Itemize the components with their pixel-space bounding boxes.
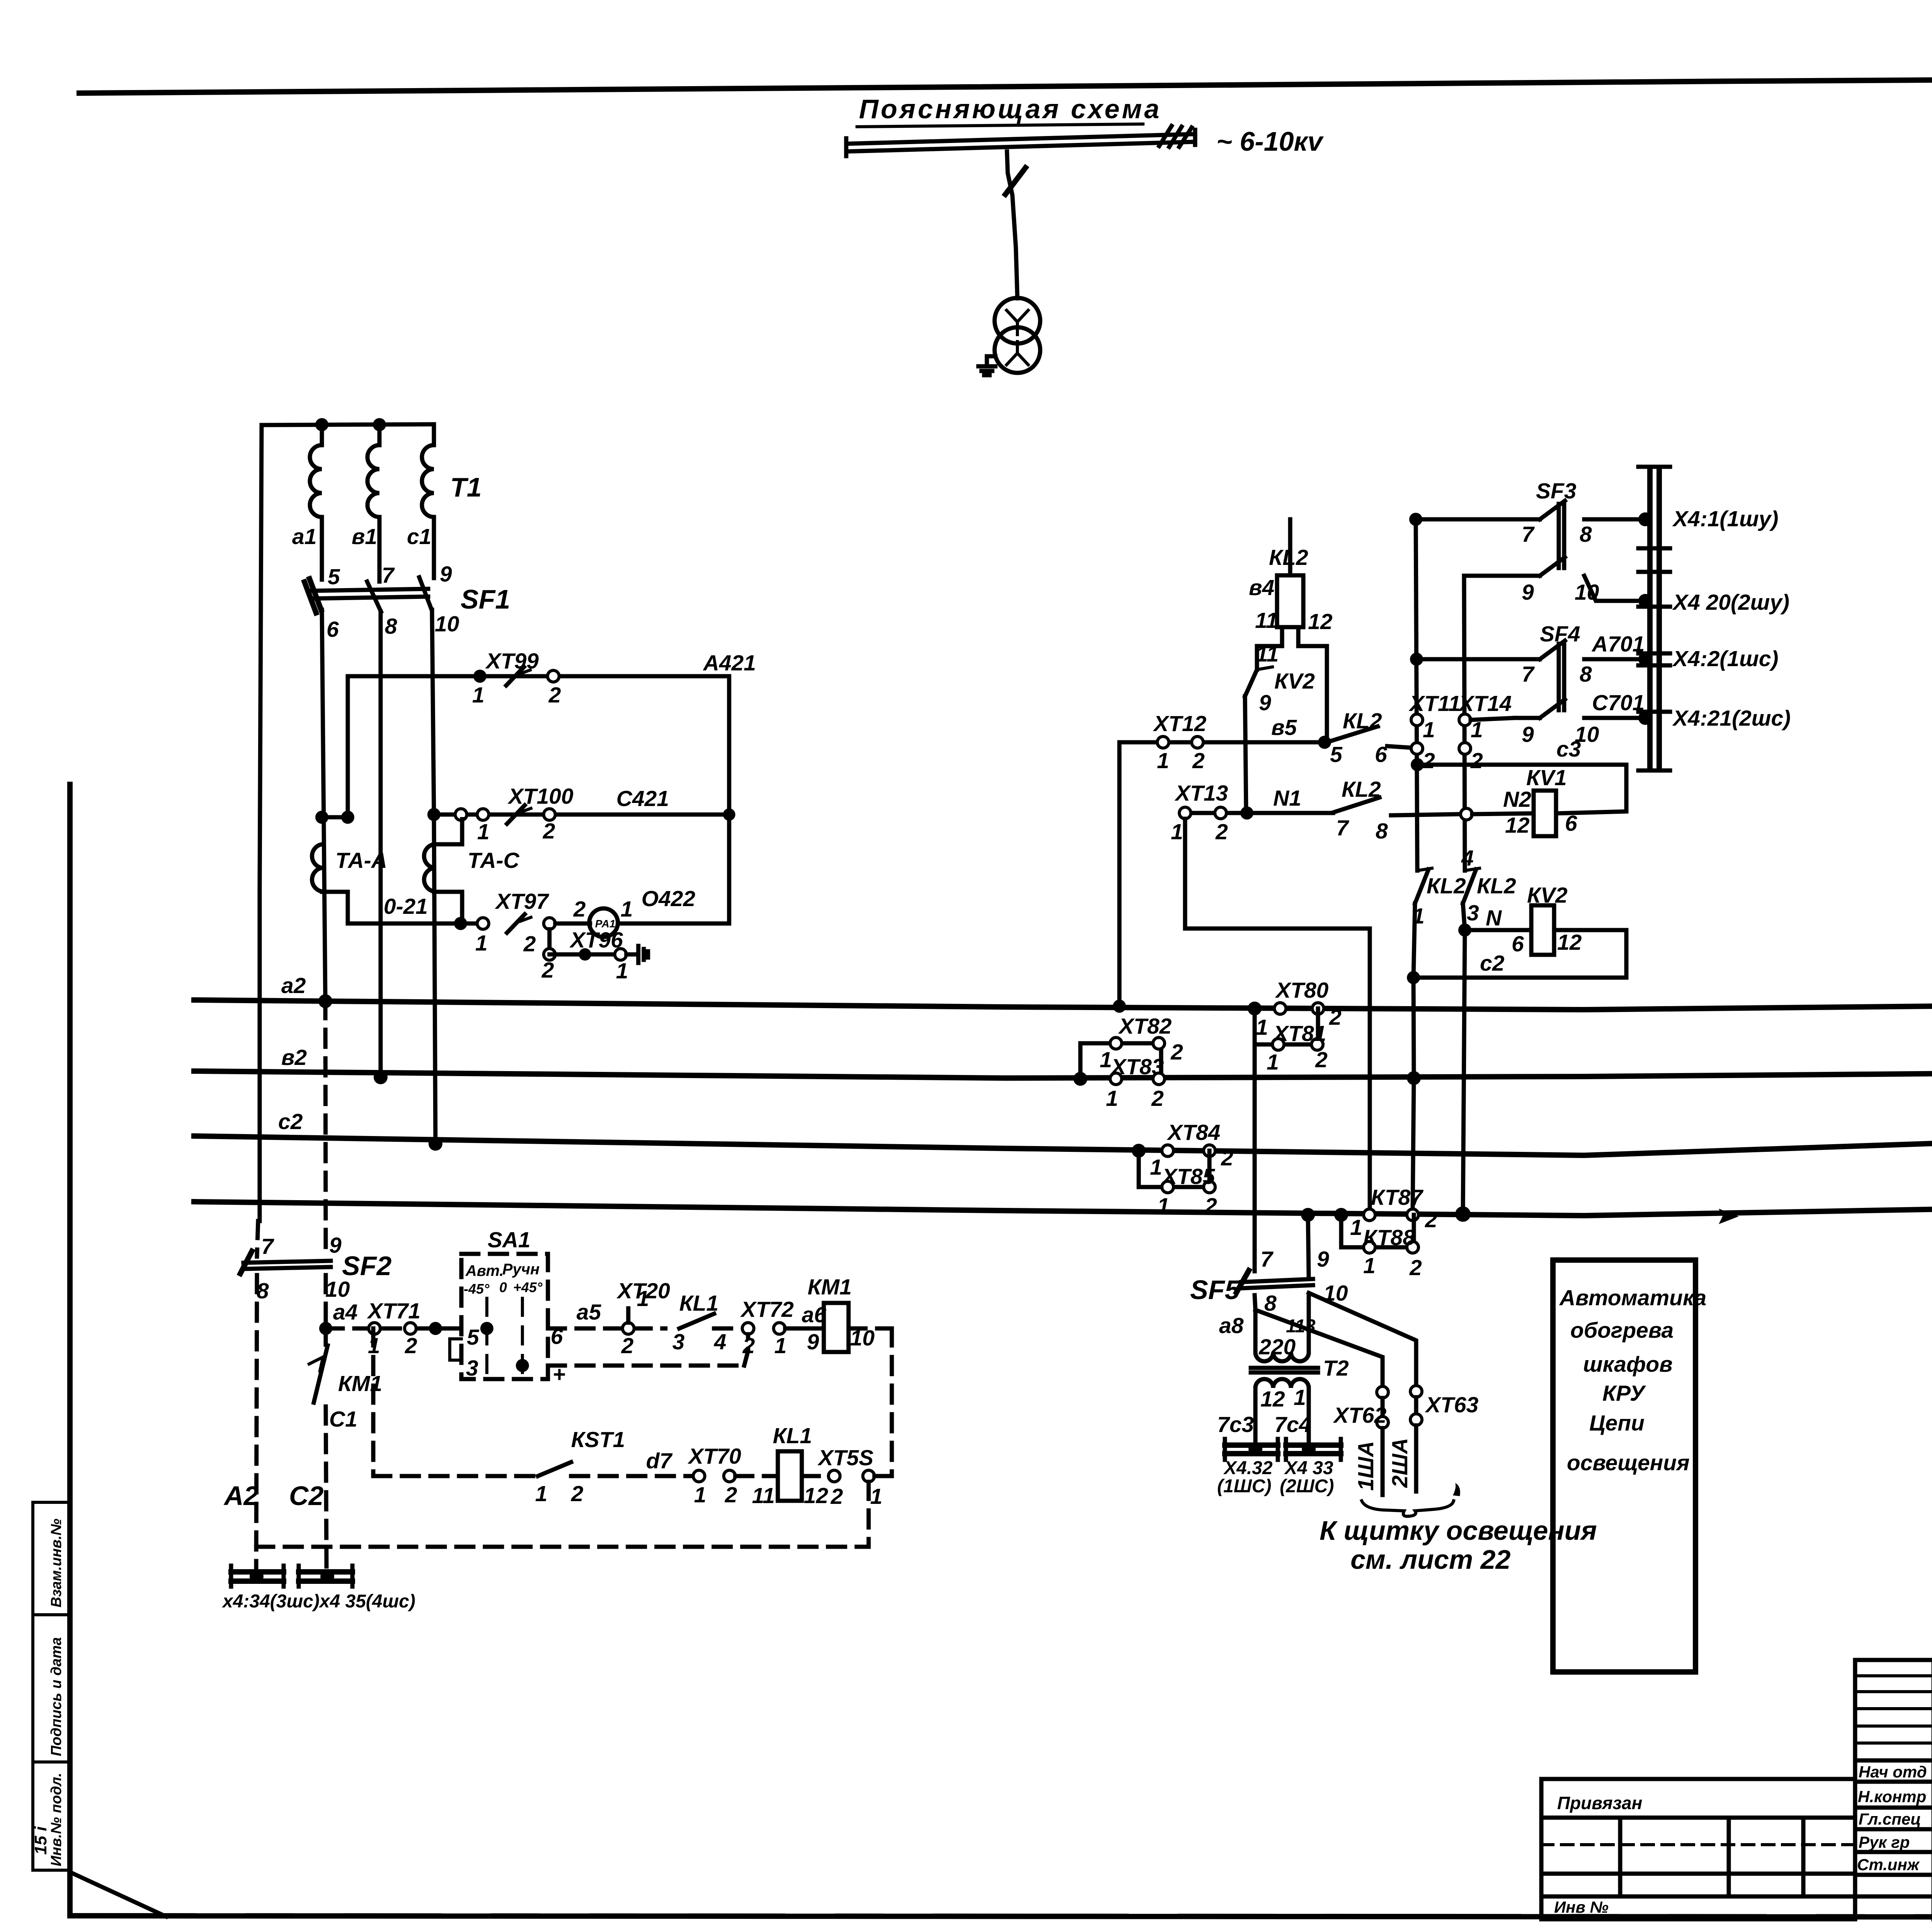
terminal XT71 <box>326 1299 435 1358</box>
bus b2 <box>194 1045 1932 1078</box>
svg-text:0-21: 0-21 <box>384 894 428 919</box>
svg-text:ХТ12: ХТ12 <box>1153 711 1207 736</box>
wire A421 with terminal XT99 <box>349 649 756 707</box>
svg-text:1: 1 <box>870 1484 883 1509</box>
transformer T (2 circles) <box>995 298 1040 373</box>
svg-text:10: 10 <box>435 612 459 636</box>
svg-text:ХТ70: ХТ70 <box>687 1444 742 1469</box>
connector x4:34 <box>231 1566 284 1587</box>
svg-text:7: 7 <box>1522 662 1535 687</box>
svg-text:Х4:21(2шс): Х4:21(2шс) <box>1672 706 1791 731</box>
vertical link from XT99 line down to TA-A <box>346 676 350 817</box>
svg-text:2: 2 <box>830 1484 843 1509</box>
bus n (4th) <box>194 1200 1932 1216</box>
svg-text:Автоматика: Автоматика <box>1559 1286 1706 1310</box>
breaker SF2 <box>240 1233 391 1303</box>
wire 1ShA to lighting panel <box>1255 1310 1388 1495</box>
svg-text:SA1: SA1 <box>488 1228 531 1252</box>
terminal XT20 <box>616 1279 670 1358</box>
svg-text:2: 2 <box>571 1481 583 1506</box>
transformer T1 top bus <box>262 424 434 425</box>
svg-text:Рук гр: Рук гр <box>1859 1833 1910 1851</box>
svg-text:7: 7 <box>382 563 395 588</box>
terminal XT58 <box>817 1446 892 1509</box>
column XT11 <box>1408 513 1461 871</box>
svg-text:ХТ71: ХТ71 <box>367 1299 420 1323</box>
terminals XT82 / XT83 <box>1073 1014 1183 1111</box>
svg-text:2: 2 <box>1422 748 1435 773</box>
ground of transformer <box>978 356 995 375</box>
svg-text:2: 2 <box>1315 1048 1328 1072</box>
junction a2/TA-A column <box>318 994 332 1008</box>
svg-text:Подпись и дата: Подпись и дата <box>48 1637 65 1756</box>
svg-text:с1: с1 <box>407 524 431 549</box>
node b1 top junction <box>373 418 386 431</box>
svg-text:1: 1 <box>1150 1155 1162 1180</box>
T2 core <box>1251 1356 1349 1381</box>
sheet top border <box>79 75 1932 93</box>
bus a2 <box>194 973 1932 1010</box>
SF1 pole 6 wire down through TA-A to bus a2 <box>322 610 325 1001</box>
contact KL2 1 <box>1412 868 1466 978</box>
svg-text:Х4:1(1шу): Х4:1(1шу) <box>1672 507 1778 531</box>
svg-text:ХТ84: ХТ84 <box>1167 1120 1220 1145</box>
svg-text:15 i: 15 i <box>31 1826 50 1855</box>
junction b2/SF1 pole8 <box>374 1070 388 1084</box>
svg-text:ХТ62: ХТ62 <box>1333 1403 1387 1428</box>
svg-text:КРУ: КРУ <box>1602 1381 1646 1406</box>
svg-text:ХТ85: ХТ85 <box>1161 1164 1216 1189</box>
connector X4:33 <box>1280 1439 1341 1497</box>
svg-text:см. лист 22: см. лист 22 <box>1350 1544 1510 1575</box>
transformer T2 primary winding a8 <box>1219 1310 1316 1361</box>
box Avtomatika obogreva <box>1553 1260 1706 1672</box>
svg-text:2: 2 <box>1409 1255 1422 1280</box>
svg-text:8: 8 <box>1376 819 1388 844</box>
arrow on 4th bus <box>1719 1209 1739 1224</box>
svg-text:N1: N1 <box>1273 786 1301 811</box>
svg-text:А421: А421 <box>702 651 756 675</box>
svg-text:12: 12 <box>804 1483 828 1508</box>
svg-text:5: 5 <box>467 1325 480 1350</box>
svg-text:а4: а4 <box>333 1300 357 1325</box>
svg-text:1: 1 <box>621 897 633 922</box>
svg-text:КМ1: КМ1 <box>808 1275 852 1299</box>
wire from XT13 pin1 loop down to XT87 <box>1185 819 1370 1209</box>
terminal XT13 and wire N1 <box>1171 781 1333 844</box>
bottom return dashed wire <box>256 1482 869 1547</box>
svg-text:+45°: +45° <box>513 1279 543 1295</box>
svg-text:1: 1 <box>1171 820 1183 844</box>
svg-text:SF3: SF3 <box>1536 479 1577 503</box>
wire c2 (KV2 return) <box>1407 951 1626 1209</box>
svg-text:КL2: КL2 <box>1427 874 1466 898</box>
svg-text:ТА-С: ТА-С <box>468 848 520 873</box>
terminals XT87 / XT88 <box>1301 1185 1437 1280</box>
svg-text:6: 6 <box>327 617 339 642</box>
svg-text:2: 2 <box>1329 1005 1342 1030</box>
svg-text:а2: а2 <box>281 973 306 998</box>
bus c2 <box>194 1109 1932 1155</box>
svg-text:а5: а5 <box>577 1300 602 1325</box>
svg-text:А2: А2 <box>223 1481 259 1511</box>
holding circuit line KST1/d7 <box>373 1427 693 1506</box>
svg-text:1: 1 <box>637 1286 649 1311</box>
svg-text:С1: С1 <box>329 1407 357 1432</box>
svg-text:2: 2 <box>573 897 586 922</box>
svg-text:Т2: Т2 <box>1323 1356 1349 1381</box>
svg-text:1: 1 <box>694 1483 706 1507</box>
svg-text:7: 7 <box>1522 522 1535 547</box>
svg-text:О422: О422 <box>641 886 696 911</box>
svg-text:d7: d7 <box>646 1449 673 1473</box>
brace to lighting panel <box>1362 1483 1460 1516</box>
column from XT81 down to SF5 pole7 <box>1253 1044 1257 1271</box>
breaker SF1 <box>304 562 510 642</box>
coil KV1 <box>1472 765 1626 838</box>
svg-text:ХТ5S: ХТ5S <box>817 1446 874 1470</box>
second pole wire of SA1 <box>548 1334 748 1366</box>
svg-text:1: 1 <box>1267 1050 1279 1075</box>
svg-text:4: 4 <box>714 1330 726 1354</box>
breaker SF3 <box>1416 479 1640 605</box>
svg-text:Т1: Т1 <box>450 472 482 502</box>
current transformer TA-C <box>424 819 520 923</box>
svg-text:ХТ80: ХТ80 <box>1275 978 1329 1003</box>
svg-text:7: 7 <box>1260 1247 1274 1272</box>
svg-text:КSТ1: КSТ1 <box>571 1427 625 1452</box>
svg-text:5: 5 <box>328 565 340 589</box>
svg-text:SF1: SF1 <box>461 584 510 614</box>
title block signature table <box>1855 1660 1932 1919</box>
svg-text:ХТ82: ХТ82 <box>1118 1014 1172 1039</box>
contact KL2 5-6 <box>1329 709 1411 767</box>
svg-text:С2: С2 <box>289 1481 324 1511</box>
svg-text:2: 2 <box>621 1333 634 1358</box>
svg-text:6: 6 <box>1512 932 1524 956</box>
svg-text:КМ1: КМ1 <box>338 1371 382 1396</box>
sheet bottom border <box>70 1916 1932 1917</box>
column XT14 <box>1458 576 1512 871</box>
svg-text:220: 220 <box>1259 1335 1296 1359</box>
signature table texts <box>1857 1763 1932 1874</box>
node a4 on C2 wire <box>319 1322 332 1335</box>
svg-text:Инв.№ подл.: Инв.№ подл. <box>48 1773 65 1866</box>
node to SA1 <box>429 1322 442 1335</box>
svg-text:3: 3 <box>672 1330 685 1354</box>
T1 winding b1 <box>352 425 379 582</box>
svg-text:КL2: КL2 <box>1342 777 1381 802</box>
disconnector drop wire <box>1005 151 1026 298</box>
svg-text:8: 8 <box>385 614 397 639</box>
contact KL2 3 <box>1461 846 1516 930</box>
left long wire from T1 <box>260 425 262 1221</box>
svg-text:1: 1 <box>475 931 488 956</box>
svg-text:обогрева: обогрева <box>1570 1318 1673 1343</box>
svg-text:(1ШС): (1ШС) <box>1217 1476 1271 1497</box>
svg-text:2: 2 <box>523 932 536 956</box>
contact KL1 <box>672 1291 742 1354</box>
svg-text:КV1: КV1 <box>1526 765 1567 790</box>
ammeter PA1 <box>555 886 696 937</box>
connector Х4:2(1шс) <box>1638 607 1778 712</box>
svg-text:10: 10 <box>325 1277 350 1302</box>
svg-text:N: N <box>1486 906 1502 930</box>
svg-text:1: 1 <box>535 1481 548 1506</box>
svg-text:2: 2 <box>1151 1086 1164 1111</box>
svg-text:12: 12 <box>1308 609 1333 634</box>
svg-text:5: 5 <box>1330 742 1343 767</box>
coil KL2 <box>1249 519 1333 742</box>
svg-text:3: 3 <box>466 1356 478 1381</box>
connector x4:35 <box>299 1566 352 1587</box>
svg-text:9: 9 <box>1317 1247 1329 1272</box>
wire from XT71 pin1 down <box>371 1328 376 1476</box>
terminal XT12 and wire b5 <box>1119 711 1331 773</box>
svg-text:2: 2 <box>541 958 554 983</box>
svg-text:4: 4 <box>1461 846 1474 871</box>
svg-text:7с4: 7с4 <box>1274 1412 1311 1437</box>
svg-text:КТ87: КТ87 <box>1371 1185 1423 1210</box>
svg-text:ТА-А: ТА-А <box>335 848 387 873</box>
svg-text:Н.контр: Н.контр <box>1858 1787 1926 1806</box>
selector switch SA1 <box>450 1228 565 1387</box>
node a1 top junction <box>315 418 328 431</box>
connector Х4:21(2шс) <box>1638 665 1791 770</box>
svg-text:12: 12 <box>1260 1387 1285 1412</box>
svg-text:а1: а1 <box>292 524 316 549</box>
wire A2 phase dashed (left) <box>256 1221 258 1570</box>
wire C421 with terminal XT100 <box>427 784 729 844</box>
svg-text:Ручн: Ручн <box>502 1261 539 1278</box>
svg-text:1ША: 1ША <box>1354 1441 1378 1491</box>
wire N and column down to 4th bus <box>1455 906 1502 1222</box>
svg-text:7с3: 7с3 <box>1217 1412 1254 1437</box>
svg-text:в2: в2 <box>281 1045 307 1070</box>
svg-text:Инв №: Инв № <box>1554 1898 1609 1916</box>
connector Х4:1(1шу) <box>1638 467 1778 572</box>
svg-text:2: 2 <box>1215 820 1228 844</box>
svg-text:Х4 20(2шу): Х4 20(2шу) <box>1672 590 1789 615</box>
svg-text:Поясняющая схема: Поясняющая схема <box>859 94 1162 124</box>
current transformer TA-A <box>312 811 387 923</box>
svg-text:2: 2 <box>405 1333 417 1358</box>
svg-text:1: 1 <box>1157 748 1169 773</box>
svg-text:10: 10 <box>1575 722 1599 747</box>
coil KM1 <box>807 1275 875 1354</box>
svg-text:1: 1 <box>477 820 490 844</box>
wire 0-21 <box>348 894 483 930</box>
svg-text:1: 1 <box>1294 1385 1306 1410</box>
SF1 pole 8 wire down to b2 bus <box>379 612 383 1077</box>
breaker SF4 <box>1418 622 1640 747</box>
svg-text:9: 9 <box>1259 690 1271 715</box>
svg-text:2: 2 <box>1192 748 1205 773</box>
contact KM1 (main) <box>309 1345 382 1432</box>
svg-text:1: 1 <box>1100 1048 1112 1072</box>
svg-text:11: 11 <box>1255 608 1278 633</box>
svg-text:9: 9 <box>329 1233 342 1258</box>
privyazan box <box>1541 1779 1855 1919</box>
wire SF3 pole10 to X4:20 <box>1584 576 1640 601</box>
terminal XT97 <box>475 889 555 956</box>
terminal XT70 <box>687 1444 778 1507</box>
svg-text:1: 1 <box>1423 718 1435 742</box>
svg-text:SF2: SF2 <box>342 1251 391 1281</box>
svg-text:КL1: КL1 <box>679 1291 719 1316</box>
svg-text:2: 2 <box>1425 1207 1437 1232</box>
svg-text:ХТ83: ХТ83 <box>1110 1054 1164 1079</box>
svg-text:2: 2 <box>548 683 561 707</box>
svg-text:7: 7 <box>1336 816 1349 840</box>
svg-text:1: 1 <box>1350 1215 1362 1240</box>
breaker SF5 <box>1190 1215 1348 1316</box>
svg-text:x4:34(3шс)x4 35(4шс): x4:34(3шс)x4 35(4шс) <box>221 1591 415 1612</box>
svg-text:а8: а8 <box>1219 1313 1244 1338</box>
svg-text:с2: с2 <box>1480 951 1505 976</box>
svg-text:ХТ63: ХТ63 <box>1425 1393 1479 1417</box>
svg-text:ХТ13: ХТ13 <box>1174 781 1228 806</box>
svg-text:7: 7 <box>261 1234 274 1259</box>
terminals XT80 / XT81 <box>1248 978 1342 1075</box>
svg-text:8: 8 <box>1580 662 1592 687</box>
svg-text:ХТ81: ХТ81 <box>1272 1021 1326 1046</box>
junction c2/pole10 column <box>429 1137 442 1151</box>
svg-text:КТ88: КТ88 <box>1363 1225 1415 1250</box>
svg-text:Гл.спец: Гл.спец <box>1859 1810 1921 1828</box>
svg-text:-45°: -45° <box>464 1281 490 1297</box>
wire c3 <box>1417 737 1626 765</box>
coil KV2 <box>1465 883 1626 978</box>
T1 winding a1 <box>292 425 322 580</box>
svg-text:в4: в4 <box>1249 575 1274 600</box>
svg-text:2ША: 2ША <box>1388 1438 1412 1488</box>
svg-text:9: 9 <box>807 1330 819 1354</box>
svg-text:Взам.инв.№: Взам.инв.№ <box>48 1519 65 1607</box>
svg-text:2: 2 <box>543 819 555 844</box>
svg-text:КL2: КL2 <box>1477 874 1516 898</box>
svg-text:ХТ72: ХТ72 <box>740 1297 794 1322</box>
svg-text:8: 8 <box>257 1279 269 1303</box>
svg-text:Ст.инж: Ст.инж <box>1857 1855 1920 1874</box>
svg-text:1: 1 <box>774 1333 787 1358</box>
bottom-left diagonal <box>70 1872 166 1917</box>
wire C2 phase dashed from a2 bus <box>325 1001 327 1570</box>
coil KL1 <box>752 1423 828 1508</box>
svg-text:1: 1 <box>1363 1253 1376 1278</box>
svg-text:1: 1 <box>1157 1194 1170 1218</box>
title: Поясняющая схема <box>857 94 1162 127</box>
SF1 pole 10 wire down through TA-C to bus c2 <box>432 610 435 1144</box>
svg-text:2: 2 <box>1204 1194 1217 1218</box>
svg-text:2: 2 <box>1170 1040 1183 1065</box>
svg-text:в5: в5 <box>1271 715 1297 740</box>
contact KL2 7-8 <box>1334 777 1461 844</box>
stamp column boxes <box>31 1502 70 1870</box>
svg-text:Нач отд: Нач отд <box>1859 1763 1927 1781</box>
svg-text:ХТ100: ХТ100 <box>507 784 573 809</box>
svg-text:1: 1 <box>1106 1086 1118 1111</box>
svg-text:3: 3 <box>1467 901 1479 925</box>
wire SF4 pole9 from XT14 <box>1471 718 1515 720</box>
wire from KM1 coil to right loop <box>849 1328 892 1476</box>
T2 secondary winding <box>1217 1379 1311 1446</box>
wire from XT12 down to a2 bus <box>1113 742 1126 1013</box>
svg-text:1: 1 <box>616 959 628 983</box>
svg-text:Привязан: Привязан <box>1557 1793 1642 1813</box>
wire O422 loop up to A421/C421 <box>618 676 735 923</box>
svg-text:11: 11 <box>1256 642 1279 667</box>
svg-text:(2ШС): (2ШС) <box>1280 1476 1334 1497</box>
svg-text:ХТ99: ХТ99 <box>485 649 539 673</box>
svg-text:1: 1 <box>1256 1015 1268 1040</box>
svg-text:КL1: КL1 <box>773 1423 812 1448</box>
svg-text:9: 9 <box>1522 580 1534 605</box>
wire 2ShA to lighting panel <box>1309 1293 1479 1492</box>
svg-text:ХТ97: ХТ97 <box>495 889 549 914</box>
wire a5 to XT20 <box>548 1300 665 1328</box>
terminals XT84 / XT85 <box>1132 1120 1233 1218</box>
svg-text:2: 2 <box>1470 748 1483 773</box>
svg-text:шкафов: шкафов <box>1583 1352 1673 1377</box>
svg-text:SF5: SF5 <box>1190 1275 1240 1305</box>
svg-text:9: 9 <box>1522 722 1534 747</box>
svg-text:КV2: КV2 <box>1274 669 1315 694</box>
svg-text:0: 0 <box>499 1279 507 1295</box>
svg-text:ХТ96: ХТ96 <box>569 928 623 952</box>
svg-text:N2: N2 <box>1503 787 1531 812</box>
svg-text:с2: с2 <box>278 1109 303 1134</box>
svg-text:Х4:2(1шс): Х4:2(1шс) <box>1672 646 1778 671</box>
svg-text:Авт.: Авт. <box>465 1262 504 1279</box>
connector X4.32 <box>1217 1439 1278 1497</box>
svg-text:освещения: освещения <box>1567 1451 1690 1475</box>
svg-text:12: 12 <box>1557 930 1582 955</box>
terminal XT96 with ground <box>541 928 648 983</box>
svg-text:С421: С421 <box>616 786 669 811</box>
svg-text:~ 6-10кv: ~ 6-10кv <box>1216 126 1324 156</box>
svg-text:ХТ11: ХТ11 <box>1408 691 1461 716</box>
svg-text:2: 2 <box>724 1483 737 1507</box>
svg-text:КL2: КL2 <box>1343 709 1382 733</box>
svg-text:Х4.32: Х4.32 <box>1223 1458 1273 1478</box>
terminal XT72 <box>740 1297 827 1358</box>
svg-text:Х4 33: Х4 33 <box>1284 1458 1333 1478</box>
svg-text:А701: А701 <box>1591 632 1645 656</box>
busbar 6-10kV double line <box>846 130 1195 156</box>
svg-text:11: 11 <box>752 1483 775 1508</box>
connector Х4 20(2шу) <box>1638 548 1789 653</box>
busbar hatch marks <box>1159 126 1192 147</box>
svg-text:ХТ14: ХТ14 <box>1458 691 1512 716</box>
svg-text:в1: в1 <box>352 524 377 549</box>
svg-text:12: 12 <box>1505 813 1530 838</box>
svg-text:1: 1 <box>472 683 485 707</box>
svg-text:2: 2 <box>1221 1146 1233 1170</box>
svg-text:Цепи: Цепи <box>1589 1411 1645 1435</box>
T1 winding c1 <box>407 424 434 578</box>
contact KV2 <box>1245 642 1315 813</box>
svg-text:9: 9 <box>440 562 452 587</box>
sheet left border <box>67 784 73 1916</box>
svg-text:8: 8 <box>1580 522 1592 547</box>
